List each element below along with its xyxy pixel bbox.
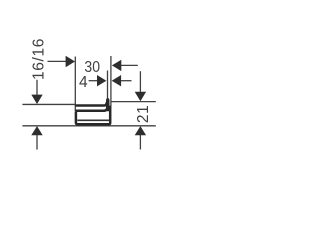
svg-text:16/16: 16/16 <box>31 38 48 80</box>
arrow left at B (4) <box>112 75 121 86</box>
extension line T2 bottom full <box>22 125 155 127</box>
leader 16/16 <box>48 60 68 62</box>
tail 4 right arrow <box>121 80 132 82</box>
arrow up at T2 (21) <box>135 126 146 135</box>
hook nub filled <box>106 98 110 111</box>
extension line B right <box>110 56 112 106</box>
inner bottom line <box>77 119 109 121</box>
tail right dim top <box>139 71 141 92</box>
arrow left at B (30) <box>112 60 121 71</box>
arrow right at C (4) <box>97 75 106 86</box>
tail right dim bottom <box>139 135 141 150</box>
arrow right at A (16/16 leader) <box>66 56 75 67</box>
hook outer profile <box>75 103 106 106</box>
extension line T3 plate top right <box>111 101 156 103</box>
technical dimension drawing of wall hook profile <box>0 0 200 200</box>
svg-text:4: 4 <box>79 74 88 91</box>
arrow up at T2 (16/16) <box>31 126 42 135</box>
arrow down at T3 (21) <box>135 92 146 101</box>
hook arm inner line <box>75 109 106 111</box>
tail 30 right arrow <box>121 64 138 66</box>
plate right edge and box bottom <box>76 106 110 125</box>
extension line T1 arm top left <box>22 103 75 105</box>
extension line C short <box>107 71 109 100</box>
tail left dim bottom <box>36 135 38 150</box>
arrow down at T1 (16/16) <box>31 95 42 104</box>
tail left dim top <box>36 80 38 96</box>
svg-text:21: 21 <box>135 105 152 124</box>
leader 4 <box>89 80 101 82</box>
extension line A left <box>74 57 76 112</box>
